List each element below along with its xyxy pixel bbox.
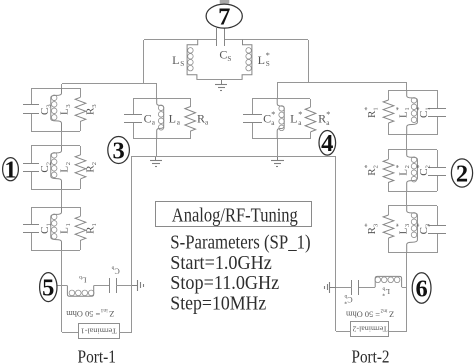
wire junction to Lb-star: [402, 287, 407, 289]
svg-text:C: C: [39, 108, 51, 115]
resistor Ra label: [197, 111, 209, 126]
resistor Ra: [185, 107, 196, 132]
inductor L2 label: [59, 162, 72, 173]
svg-text:*: *: [394, 107, 403, 111]
inductor L3-star: [407, 206, 418, 253]
inductor LS value label: [172, 53, 184, 68]
inductor L1-star: [407, 91, 418, 135]
svg-text:*: *: [326, 110, 330, 119]
inductor La label: [169, 111, 181, 126]
svg-text:S-Parameters (SP_1): S-Parameters (SP_1): [170, 233, 310, 254]
svg-text:Terminal-1: Terminal-1: [80, 326, 116, 335]
svg-text:L: L: [398, 227, 410, 234]
svg-text:7: 7: [218, 3, 230, 30]
svg-text:Analog/RF-Tuning: Analog/RF-Tuning: [172, 206, 298, 227]
node 1: [3, 158, 19, 181]
capacitor Ca-star label: [263, 110, 275, 127]
resistor R1: [75, 216, 86, 240]
capacitor C3: [23, 104, 39, 106]
inductor LS-star value label: [258, 51, 270, 68]
svg-text:*: *: [363, 107, 372, 111]
svg-text:L: L: [59, 227, 71, 234]
svg-text:L: L: [59, 108, 71, 115]
inductor L1 label: [59, 223, 72, 234]
capacitor C3-star: [428, 225, 446, 227]
svg-text:in1: in1: [100, 307, 107, 313]
inductor Lb label rotated 180: [79, 274, 87, 285]
svg-text:*: *: [415, 164, 424, 168]
wire top mark above node 7: [220, 0, 230, 4]
svg-text:C: C: [219, 47, 227, 61]
capacitor Ca label: [144, 111, 156, 126]
inductor Lb: [67, 285, 93, 296]
capacitor C2-star label: [415, 164, 432, 175]
capacitor C2: [23, 163, 39, 165]
resistor R1-star: [383, 100, 394, 123]
svg-text:*: *: [266, 51, 270, 60]
wire left horizontal distribution: [62, 83, 157, 85]
tank 3 left-column outline wires: [31, 88, 80, 90]
resistor R1 label: [85, 223, 98, 234]
wire stem from right distribution to tank a-star: [277, 82, 279, 99]
capacitor Cb-star label rotated 180: [344, 293, 352, 304]
capacitor Cb-star plates: [351, 280, 353, 295]
svg-text:L: L: [398, 111, 410, 118]
ground term2 sideways: [330, 287, 336, 289]
svg-text:S: S: [180, 60, 184, 68]
node 7: [206, 4, 242, 28]
wire main top bus left segment: [144, 39, 217, 41]
resistor Ra-star: [305, 107, 316, 132]
inductor Lb-star: [375, 276, 401, 287]
wire between tank3 and tank2: [61, 131, 63, 146]
wire stem from left distribution to tank a: [156, 84, 158, 98]
wire top tank bottom rail: [197, 79, 242, 81]
svg-text:2: 2: [372, 165, 379, 168]
wire Lb to Cb: [94, 285, 110, 287]
inductor L1-star label: [394, 107, 411, 118]
capacitor C2-star: [428, 167, 446, 169]
svg-text:S: S: [227, 55, 231, 63]
svg-text:1: 1: [424, 107, 431, 110]
capacitor C2 label: [39, 162, 52, 173]
inductor Lb-star label rotated 180: [382, 285, 390, 296]
wire Cb-star to ground junction: [336, 287, 352, 289]
wire stub to right column: [406, 82, 408, 90]
svg-text:*: *: [415, 223, 424, 227]
svg-text:*: *: [382, 290, 385, 296]
resistor R3-star: [383, 215, 394, 238]
svg-text:6: 6: [415, 275, 427, 302]
svg-text:in2: in2: [380, 308, 387, 314]
capacitor C3 label: [39, 104, 52, 115]
svg-text:L: L: [172, 53, 179, 67]
svg-text:Step=10MHz: Step=10MHz: [170, 293, 266, 314]
svg-text:Terminal-2: Terminal-2: [352, 324, 387, 333]
inductor L2: [51, 146, 62, 190]
svg-text:2: 2: [424, 165, 431, 168]
svg-text:3: 3: [424, 224, 431, 227]
svg-text:*: *: [344, 298, 347, 304]
wire right horizontal distribution: [277, 82, 407, 84]
inductor L1: [51, 207, 62, 250]
capacitor Cb label rotated 180: [111, 265, 119, 276]
capacitor C1: [23, 224, 39, 226]
svg-text:2: 2: [91, 162, 98, 165]
tank 3-star right-column outline wires: [388, 205, 437, 207]
capacitor C3-star label: [415, 223, 432, 234]
inductor L3-star label: [394, 223, 411, 234]
resistor R2-star label: [363, 164, 380, 175]
svg-text:*: *: [394, 164, 403, 168]
capacitor C1-star: [428, 108, 446, 110]
inductor L3: [51, 88, 62, 131]
svg-text:3: 3: [91, 104, 98, 107]
svg-text:*: *: [298, 110, 302, 119]
wire tank a down to ground rail: [156, 139, 158, 156]
capacitor Ca-star: [243, 114, 262, 116]
resistor R3-star label: [363, 223, 380, 234]
svg-text:*: *: [363, 223, 372, 227]
wire term1 left pin: [62, 332, 78, 334]
svg-text:C: C: [144, 111, 152, 125]
svg-text:3: 3: [372, 224, 379, 227]
ground below tank a: [155, 156, 157, 161]
svg-text:2: 2: [404, 165, 411, 168]
svg-text:*: *: [363, 164, 372, 168]
svg-text:1: 1: [65, 223, 72, 226]
wire tank3-star down to port-2 junction: [406, 253, 408, 331]
tank a outline wires: [133, 98, 190, 100]
svg-text:3: 3: [404, 224, 411, 227]
svg-text:C: C: [418, 168, 430, 175]
wire right drop from top bus: [308, 40, 310, 82]
svg-text:1: 1: [91, 223, 98, 226]
inductor LS left branch of top tank: [187, 40, 198, 80]
capacitor Cb plates: [109, 278, 111, 293]
resistor R2-star: [383, 159, 394, 182]
wire between tank2 and tank1: [61, 189, 63, 207]
svg-text:b: b: [79, 274, 82, 280]
inductor La-star label: [290, 110, 302, 127]
svg-text:C: C: [418, 227, 430, 234]
svg-text:L: L: [59, 166, 71, 173]
svg-text:L: L: [258, 53, 265, 67]
wire Lb-star to Cb-star: [358, 287, 375, 289]
node 3: [108, 137, 130, 164]
wire Cb to ground junction: [116, 285, 132, 287]
svg-text:L: L: [169, 111, 176, 125]
svg-text:C: C: [39, 226, 51, 233]
inductor L3 label: [59, 104, 72, 115]
svg-text:2: 2: [456, 160, 468, 187]
svg-text:C: C: [418, 111, 430, 118]
svg-text:Start=1.0GHz: Start=1.0GHz: [170, 253, 272, 274]
tank 2-star right-column outline wires: [388, 149, 437, 151]
capacitor C1-star label: [415, 107, 432, 118]
svg-text:= 50 Ohm: = 50 Ohm: [346, 310, 380, 320]
wire term2 right pin: [389, 331, 407, 333]
svg-text:1: 1: [372, 107, 379, 110]
wire between tank2-star and tank3-star: [406, 191, 408, 206]
svg-text:*: *: [415, 107, 424, 111]
svg-text:3: 3: [65, 104, 72, 107]
node 2: [451, 159, 472, 187]
resistor R2: [75, 155, 86, 179]
node 6: [412, 273, 431, 303]
svg-text:1: 1: [4, 157, 16, 184]
svg-text:2: 2: [65, 162, 72, 165]
text Z impedance label term2 rotated 180: [346, 308, 394, 320]
resistor R3 label: [85, 104, 98, 115]
wire tank a-star down to ground rail: [277, 139, 279, 156]
wire center rail left side down: [131, 156, 133, 332]
ground below tank a-star: [277, 156, 279, 161]
wire tank1 down to port-1 junction: [61, 250, 63, 332]
terminal 1 box: [79, 324, 120, 339]
inductor La: [157, 98, 164, 139]
capacitor C1 label: [39, 223, 52, 234]
svg-text:S: S: [266, 60, 270, 68]
wire term2 left pin: [336, 331, 351, 333]
svg-text:C: C: [263, 112, 271, 126]
terminal 2 box: [351, 322, 389, 337]
svg-text:Port-2: Port-2: [352, 346, 390, 364]
capacitor CS value label: [219, 47, 231, 62]
wire main top bus right segment: [224, 39, 308, 41]
tank 1-star right-column outline wires: [388, 90, 437, 92]
svg-text:R: R: [318, 112, 326, 126]
svg-text:= 50 Ohm: = 50 Ohm: [66, 309, 100, 319]
text Z impedance label term1 rotated 180: [66, 307, 114, 319]
tank 2 left-column outline wires: [31, 145, 80, 147]
svg-text:C: C: [39, 165, 51, 172]
svg-text:*: *: [394, 223, 403, 227]
wire center ground rail: [132, 156, 336, 158]
svg-text:5: 5: [42, 274, 54, 301]
wire junction to Lb: [62, 285, 67, 287]
resistor R2 label: [85, 162, 98, 173]
svg-text:b: b: [111, 265, 114, 271]
capacitor CS plates: [216, 28, 218, 46]
svg-text:Z: Z: [389, 310, 394, 320]
svg-text:*: *: [271, 110, 275, 119]
tank 1 left-column outline wires: [31, 207, 80, 209]
box Analog/RF-Tuning: [156, 202, 312, 227]
svg-text:Stop=11.0GHz: Stop=11.0GHz: [170, 273, 279, 294]
wire between tank1-star and tank2-star: [406, 135, 408, 150]
wire node5 stub: [57, 285, 62, 287]
svg-text:R: R: [197, 111, 205, 125]
wire left drop from top bus: [143, 40, 145, 84]
resistor Ra-star label: [318, 110, 330, 127]
svg-text:L: L: [290, 112, 297, 126]
wire term1 right pin: [119, 332, 132, 334]
svg-text:L: L: [398, 169, 410, 176]
ground below top tank: [221, 80, 223, 85]
resistor R3: [75, 97, 86, 121]
inductor LS-star right branch of top tank: [242, 40, 252, 80]
inductor L2-star label: [394, 164, 411, 175]
node 5: [40, 273, 57, 302]
resistor R1-star label: [363, 107, 380, 118]
node 4: [319, 131, 336, 156]
svg-text:3: 3: [112, 137, 124, 164]
tank a-star outline wires: [252, 98, 310, 100]
wire stub to left column: [61, 84, 63, 88]
inductor La-star: [277, 99, 284, 139]
inductor L2-star: [407, 150, 418, 191]
ground term1 sideways: [132, 285, 138, 287]
capacitor Ca: [124, 114, 142, 116]
wire center rail right side down: [335, 156, 337, 331]
svg-text:Port-1: Port-1: [78, 346, 117, 364]
svg-text:1: 1: [404, 107, 411, 110]
svg-text:4: 4: [321, 130, 333, 157]
svg-text:Z: Z: [109, 309, 114, 319]
